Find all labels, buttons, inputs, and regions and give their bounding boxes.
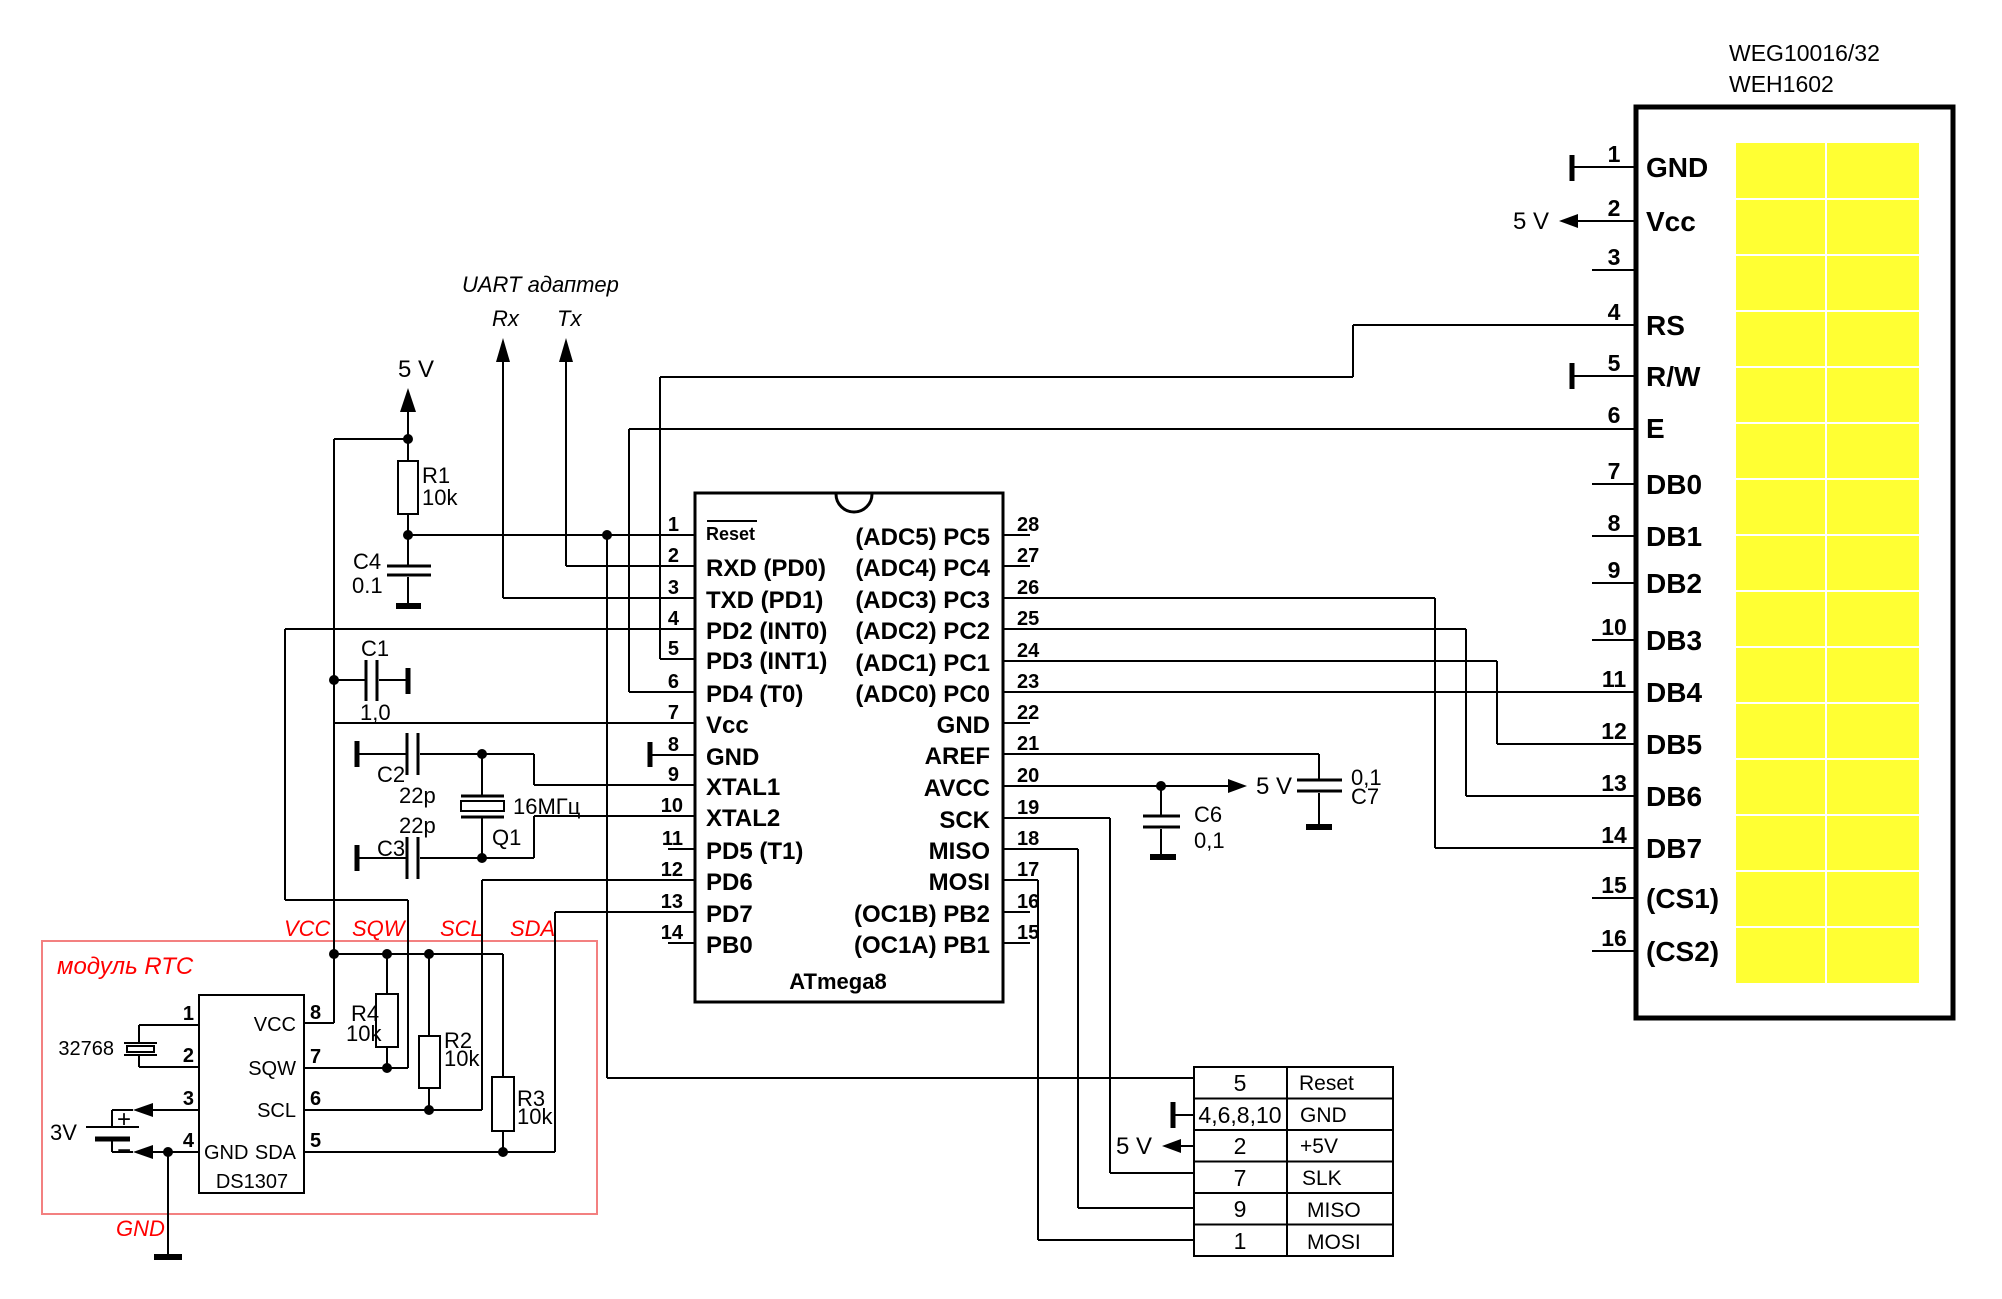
wire XTAL2 [534,816,695,858]
svg-text:3: 3 [183,1088,194,1110]
svg-text:16: 16 [1601,925,1627,951]
svg-text:WEH1602: WEH1602 [1729,71,1834,97]
svg-text:WEG10016/32: WEG10016/32 [1729,40,1880,66]
wire Tx to RXD pin 2 [566,565,695,567]
node Reset vertical junction [602,530,612,540]
svg-text:C3: C3 [377,836,405,861]
ATmega8 pin 12 PD6 [661,859,753,896]
svg-text:AREF: AREF [925,743,990,770]
svg-text:6: 6 [668,671,679,693]
svg-text:9: 9 [1234,1196,1247,1222]
svg-text:DS1307: DS1307 [216,1171,288,1193]
svg-text:GND: GND [706,744,759,771]
svg-text:DB1: DB1 [1646,521,1702,552]
svg-text:MOSI: MOSI [929,869,990,896]
svg-text:15: 15 [1017,922,1039,944]
resistor R1 10k [398,439,458,537]
svg-text:21: 21 [1017,733,1039,755]
UART Rx arrow [496,338,510,598]
ATmega8 pin 23 PC0 + wire to LCD DB4 [855,671,1636,708]
svg-text:(ADC1) PC1: (ADC1) PC1 [855,650,990,677]
svg-text:14: 14 [661,922,684,944]
ATmega8 pin 15 PB1 [854,922,1039,959]
svg-text:XTAL2: XTAL2 [706,805,780,832]
svg-text:VCC: VCC [284,916,331,941]
ground (C2 left bar) [355,741,360,767]
svg-text:RXD (PD0): RXD (PD0) [706,555,826,582]
svg-text:5: 5 [1608,350,1621,376]
svg-text:DB3: DB3 [1646,625,1702,656]
svg-text:TXD (PD1): TXD (PD1) [706,587,823,614]
capacitor C3 22p [359,813,534,879]
svg-text:7: 7 [1608,458,1621,484]
LCD pin 1 GND [1572,141,1708,183]
resistor R3 10k [492,954,553,1152]
svg-text:Rx: Rx [492,306,520,331]
ATmega8 pin 24 PC1 + wire to LCD DB5 [855,640,1636,744]
svg-text:(ADC3) PC3: (ADC3) PC3 [855,587,990,614]
LCD pin 11 DB4 [1602,666,1703,708]
ATmega8 pin 16 PB2 [854,891,1039,928]
svg-text:(ADC5) PC5: (ADC5) PC5 [855,524,990,551]
node AVCC/C6 junction [1156,781,1166,791]
svg-text:7: 7 [310,1046,321,1068]
RTC module boundary (pink box) [42,941,597,1214]
svg-text:PD6: PD6 [706,869,753,896]
svg-text:UART адаптер: UART адаптер [462,272,619,297]
capacitor C6 0,1 [1143,786,1225,855]
svg-text:SCL: SCL [257,1100,296,1122]
svg-text:22: 22 [1017,702,1039,724]
LCD pin 4 RS [1608,299,1685,341]
svg-text:16: 16 [1017,891,1039,913]
svg-text:(ADC4) PC4: (ADC4) PC4 [855,555,990,582]
svg-text:(ADC2) PC2: (ADC2) PC2 [855,618,990,645]
svg-text:MISO: MISO [929,838,990,865]
svg-text:MISO: MISO [1307,1199,1361,1222]
LCD pin 8 DB1 [1592,510,1702,552]
DS1307 pin 2 (X2) [139,1045,199,1067]
svg-text:10: 10 [1601,614,1627,640]
power 5V arrow (ISP +5V row) [1116,1133,1194,1160]
DS1307 pin 5 SDA wire [304,1130,555,1152]
wire Rx to TXD pin 3 [503,597,695,599]
node C1/VCC junction [329,675,339,685]
svg-text:GND: GND [937,712,990,739]
svg-text:5: 5 [1234,1070,1247,1096]
svg-text:4,6,8,10: 4,6,8,10 [1198,1102,1281,1128]
node VCC rail junctions [329,949,434,959]
resistor R4 10k [346,954,398,1068]
svg-text:27: 27 [1017,545,1039,567]
crystal 32768 [58,1025,157,1067]
svg-text:3: 3 [668,577,679,599]
svg-text:11: 11 [662,828,683,850]
ground (below C6) [1150,854,1176,860]
svg-text:+: + [117,1106,131,1133]
svg-text:17: 17 [1017,859,1039,881]
svg-text:R/W: R/W [1646,361,1701,392]
ground (below C4) [396,603,421,609]
svg-text:13: 13 [661,891,683,913]
wire PD6 (pin12) to SCL [482,880,695,1110]
LCD pin 9 DB2 [1592,557,1702,599]
ATmega8 pin 7 Vcc [668,702,749,739]
svg-text:1: 1 [183,1003,194,1025]
svg-text:PB0: PB0 [706,932,753,959]
ground (below C7) [1306,824,1332,830]
svg-text:19: 19 [1017,797,1039,819]
svg-text:Q1: Q1 [492,825,521,850]
svg-text:4: 4 [183,1130,195,1152]
svg-text:3: 3 [1608,244,1621,270]
node R4/SQW junction [382,1063,392,1073]
svg-text:XTAL1: XTAL1 [706,774,780,801]
svg-text:13: 13 [1601,770,1627,796]
wire GND down [167,1152,169,1256]
svg-text:E: E [1646,413,1665,444]
wire VCC rail (RTC pull-up rail) [304,954,503,1023]
svg-text:23: 23 [1017,671,1039,693]
ATmega8 pin 19 SCK + wire to ISP SLK [939,797,1194,1173]
svg-text:12: 12 [661,859,683,881]
svg-text:GND: GND [116,1216,165,1241]
svg-text:8: 8 [668,734,679,756]
svg-text:(ADC0) PC0: (ADC0) PC0 [855,681,990,708]
svg-text:32768: 32768 [58,1038,114,1060]
svg-text:DB2: DB2 [1646,568,1702,599]
capacitor C4 0.1 [352,535,431,603]
LCD pin 13 DB6 [1601,770,1702,812]
ground (ISP GND row) [1173,1102,1194,1128]
node 5V/R1 junction [403,434,413,444]
svg-text:C4: C4 [353,549,381,574]
svg-text:20: 20 [1017,765,1039,787]
wire Vcc pin7 to VCC rail [334,722,695,724]
node Reset/R1/C4 junction [403,530,413,540]
svg-text:6: 6 [1608,402,1621,428]
svg-text:14: 14 [1601,822,1627,848]
svg-text:9: 9 [668,764,679,786]
svg-text:0.1: 0.1 [352,573,383,598]
wire PD2 (pin4) to SQW [285,629,695,1068]
svg-text:DB7: DB7 [1646,833,1702,864]
ATmega8 pin 28 PC5 [855,514,1039,551]
svg-text:−: − [117,1137,131,1164]
svg-text:GND: GND [1646,152,1708,183]
ATmega8 pin 17 MOSI + wire to ISP MOSI [929,859,1194,1240]
ATmega8 pin 13 PD7 [661,891,753,928]
svg-text:(CS2): (CS2) [1646,936,1719,967]
svg-text:18: 18 [1017,828,1039,850]
svg-text:10k: 10k [444,1046,480,1071]
label UART adapter [462,272,619,331]
svg-text:2: 2 [1234,1133,1247,1159]
svg-text:24: 24 [1017,640,1040,662]
wire XTAL1 [534,754,695,785]
svg-text:GND: GND [204,1142,248,1164]
ground (ATmega8 pin 8 GND) [650,742,695,767]
svg-text:Reset: Reset [1299,1072,1354,1095]
svg-text:22p: 22p [399,813,436,838]
svg-text:модуль RTC: модуль RTC [57,953,194,980]
svg-text:SLK: SLK [1302,1167,1342,1190]
LCD pin 10 DB3 [1592,614,1702,656]
DS1307 pin 1 (X1) [139,1003,199,1025]
LCD pin 5 R/W grounded [1572,350,1701,392]
ATmega8 pin 4 PD2 [668,608,827,645]
svg-text:11: 11 [1602,666,1627,692]
LCD pin 14 DB7 [1601,822,1702,864]
svg-text:7: 7 [668,702,679,724]
ATmega8 pin 1 Reset [668,514,757,544]
ATmega8 pin 9 XTAL1 [668,764,780,801]
node GND junction at pin 4 [163,1147,173,1157]
LCD pin 2 Vcc with 5V arrow [1513,195,1696,237]
ground (C3 left bar) [355,845,360,871]
svg-text:+5V: +5V [1300,1135,1338,1158]
svg-text:10k: 10k [517,1104,553,1129]
svg-text:PD5 (T1): PD5 (T1) [706,838,803,865]
svg-text:(OC1B) PB2: (OC1B) PB2 [854,901,990,928]
svg-text:2: 2 [668,545,679,567]
svg-text:7: 7 [1234,1165,1247,1191]
svg-text:C7: C7 [1351,784,1379,809]
svg-text:DB4: DB4 [1646,677,1702,708]
svg-text:1: 1 [1234,1228,1247,1254]
svg-text:10k: 10k [422,485,458,510]
svg-text:3V: 3V [50,1120,77,1145]
ground (RTC GND bar) [154,1254,182,1260]
svg-text:SDA: SDA [255,1142,297,1164]
node R2/SCL junction [424,1105,434,1115]
node C3/Q1 junction [477,853,487,863]
node C2/Q1 junction [477,749,487,759]
svg-text:SQW: SQW [248,1058,296,1080]
ATmega8 pin 8 GND [668,734,759,771]
svg-text:VCC: VCC [254,1014,296,1036]
svg-text:C6: C6 [1194,802,1222,827]
resistor R2 10k [419,954,480,1110]
svg-text:PD2 (INT0): PD2 (INT0) [706,618,827,645]
svg-text:9: 9 [1608,557,1621,583]
ATmega8 pin 14 PB0 [661,922,753,959]
capacitor C1 1,0 [334,636,406,725]
svg-text:1: 1 [1608,141,1621,167]
LCD module WEG10016/32 WEH1602 body [1636,40,1953,1018]
LCD pin 6 E [1608,402,1665,444]
svg-text:15: 15 [1601,872,1627,898]
svg-text:4: 4 [668,608,680,630]
ATmega8 pin 27 PC4 [855,545,1039,582]
LCD pin 15 (CS1) [1592,872,1719,914]
svg-text:Vcc: Vcc [706,712,749,739]
wire Reset net: pin 1 to R1/C4 node and down to ISP [408,535,1194,1078]
svg-text:(OC1A) PB1: (OC1A) PB1 [854,932,990,959]
svg-text:0,1: 0,1 [1194,828,1225,853]
svg-text:ATmega8: ATmega8 [789,969,886,994]
svg-text:Reset: Reset [706,524,755,544]
svg-text:1,0: 1,0 [360,700,391,725]
svg-text:26: 26 [1017,577,1039,599]
svg-text:Vcc: Vcc [1646,206,1696,237]
ATmega8 pin 18 MISO + wire to ISP MISO [929,828,1194,1208]
svg-text:SDA: SDA [510,916,555,941]
svg-text:C1: C1 [361,636,389,661]
svg-text:DB0: DB0 [1646,469,1702,500]
ATmega8 pin 2 RXD [668,545,826,582]
IC U1 ATmega8 body [695,493,1003,1002]
ATmega8 pin 22 GND [937,702,1040,739]
svg-text:SCL: SCL [440,916,483,941]
wire PD4 (pin6) to LCD E [629,429,1636,692]
svg-text:PD3 (INT1): PD3 (INT1) [706,648,827,675]
svg-text:DB6: DB6 [1646,781,1702,812]
ATmega8 pin 26 PC3 + wire to LCD DB7 [855,577,1636,848]
UART Tx arrow [559,338,573,566]
power 5V arrow (top left) [398,356,434,439]
LCD pin 16 (CS2) [1592,925,1719,967]
crystal Q1 16MHz [461,754,581,858]
svg-text:5 V: 5 V [398,356,434,383]
LCD pin 3 [1592,244,1636,270]
svg-text:1: 1 [668,514,679,536]
ATmega8 pin 3 TXD [668,577,823,614]
svg-text:DB5: DB5 [1646,729,1702,760]
svg-text:SCK: SCK [939,807,990,834]
svg-text:AVCC: AVCC [924,775,990,802]
wire 5V node to VCC rail (left vertical) [334,439,408,954]
ATmega8 pin 5 PD3 [668,638,827,675]
ground (C1 right bar) [406,668,411,694]
ATmega8 pin 6 PD4 [668,671,803,708]
svg-text:RS: RS [1646,310,1685,341]
ISP connector table [1194,1067,1393,1256]
svg-text:10k: 10k [346,1021,382,1046]
svg-text:28: 28 [1017,514,1039,536]
DS1307 pin 3 (VBAT) with arrow [133,1088,199,1117]
svg-text:2: 2 [183,1045,194,1067]
svg-text:SQW: SQW [352,916,407,941]
ATmega8 pin 21 AREF + wire to C7 [925,733,1319,780]
DS1307 pin 7 SQW wire [304,1046,408,1068]
svg-text:12: 12 [1601,718,1627,744]
svg-text:5: 5 [668,638,679,660]
svg-text:6: 6 [310,1088,321,1110]
ATmega8 pin 10 XTAL2 [661,795,780,832]
wire PD3 (pin5) to LCD RS [660,325,1636,659]
capacitor C7 0,1 [1297,765,1382,825]
svg-text:5 V: 5 V [1256,773,1292,800]
capacitor C2 22p [359,733,534,808]
ATmega8 pin 20 AVCC + 5V arrow [924,765,1292,802]
LCD yellow display area [1736,143,1919,983]
IC U2 DS1307 body [199,995,304,1193]
node R3/SDA junction [498,1147,508,1157]
svg-text:4: 4 [1608,299,1621,325]
svg-text:PD4 (T0): PD4 (T0) [706,681,803,708]
svg-text:10: 10 [661,795,683,817]
svg-text:22p: 22p [399,783,436,808]
svg-text:25: 25 [1017,608,1039,630]
svg-text:5: 5 [310,1130,321,1152]
DS1307 pin 6 SCL wire [304,1088,482,1110]
svg-text:GND: GND [1300,1104,1347,1127]
LCD pin 12 DB5 [1601,718,1702,760]
ATmega8 pin 11 PD5 [662,828,804,865]
svg-text:PD7: PD7 [706,901,753,928]
svg-text:8: 8 [1608,510,1621,536]
LCD pin 7 DB0 [1592,458,1702,500]
battery BT1 3V [50,1106,139,1164]
svg-text:2: 2 [1608,195,1621,221]
svg-text:(CS1): (CS1) [1646,883,1719,914]
wire PD7 (pin13) to SDA [555,912,695,1152]
DS1307 pin 4 (GND) with arrow [133,1130,199,1159]
ATmega8 pin 25 PC2 + wire to LCD DB6 [855,608,1636,796]
svg-text:8: 8 [310,1002,321,1024]
svg-text:MOSI: MOSI [1307,1231,1361,1254]
svg-text:5 V: 5 V [1116,1133,1152,1160]
svg-text:5 V: 5 V [1513,208,1549,235]
svg-text:Tx: Tx [557,306,582,331]
